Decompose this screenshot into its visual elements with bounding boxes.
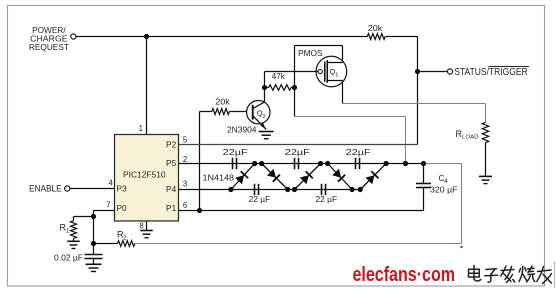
wire R1 to ground <box>73 238 75 241</box>
wire collector <box>264 88 266 102</box>
label POWER/CHARGE REQUEST <box>29 25 69 52</box>
wire pin1 vdd <box>146 37 148 135</box>
node pump top dots <box>252 161 426 166</box>
resistor 20k base <box>212 109 230 115</box>
svg-text:1N4148: 1N4148 <box>203 173 235 182</box>
label 22uF top2 <box>285 148 310 157</box>
svg-text:20k: 20k <box>215 98 231 107</box>
wire gate riser <box>265 72 318 88</box>
node power-pin1 junction <box>144 34 149 39</box>
wire status stub <box>418 71 448 73</box>
label pin P4 <box>166 184 177 194</box>
capacitor 22uF top2 <box>295 158 299 169</box>
label pin P5 <box>166 158 177 168</box>
label 20k pull-up <box>368 24 384 33</box>
resistor R1 <box>71 221 77 239</box>
svg-text:22 µF: 22 µF <box>316 195 338 204</box>
wire cap to ground <box>93 259 95 265</box>
wire P0 drop <box>94 211 115 255</box>
terminal POWER/CHARGE REQUEST <box>71 34 76 39</box>
ground RLOAD <box>479 176 492 183</box>
wire base stub <box>200 111 212 113</box>
diode D2 <box>262 164 288 190</box>
wire rload upper <box>485 104 487 123</box>
svg-text:1: 1 <box>139 124 143 133</box>
wire base-20k vertical <box>199 112 201 211</box>
label pin 2 <box>183 155 187 164</box>
resistor 20k pull-up <box>367 34 385 40</box>
node status junction <box>415 69 420 74</box>
svg-text:20k: 20k <box>368 24 384 33</box>
label STATUS/TRIGGER <box>454 67 529 79</box>
svg-text:7: 7 <box>106 201 110 210</box>
label 0.02uF <box>54 253 83 262</box>
wire source to pump <box>295 117 406 164</box>
svg-text:0.02 µF: 0.02 µF <box>54 253 83 262</box>
label pin P2 <box>166 139 177 149</box>
wire drain to load <box>343 103 486 105</box>
svg-text:22µF: 22µF <box>223 148 248 157</box>
logo strip right edge <box>554 262 556 288</box>
svg-text:REQUEST: REQUEST <box>29 42 69 52</box>
wire source loop <box>295 46 343 117</box>
svg-text:3: 3 <box>183 180 187 189</box>
wire feedback right edge <box>461 164 463 244</box>
svg-text:6: 6 <box>183 201 187 210</box>
logo chinese characters <box>469 266 552 284</box>
terminal STATUS/TRIGGER <box>447 69 452 74</box>
label pin 4 <box>108 179 113 188</box>
label 22uF top3 <box>346 148 371 157</box>
node R2 branch <box>91 241 96 246</box>
svg-text:2: 2 <box>183 155 187 164</box>
svg-text:5: 5 <box>183 136 188 145</box>
label 47k <box>272 72 286 81</box>
wire status vertical <box>417 37 419 145</box>
diode D1 1N4148 <box>231 164 255 190</box>
diode D3 <box>295 164 321 190</box>
label pin 3 <box>183 180 187 189</box>
wire pin8 <box>146 221 148 231</box>
node base-P1 junction <box>197 208 202 213</box>
ground pin8 <box>140 231 153 238</box>
wire P1 rail <box>179 210 424 212</box>
ground 0.02uF <box>86 264 102 271</box>
svg-text:P0: P0 <box>117 203 128 213</box>
capacitor 22uF top3 <box>356 158 360 169</box>
svg-text:22µF: 22µF <box>285 148 310 157</box>
label 22uF bottom2 <box>316 195 338 204</box>
label Q1 <box>330 67 339 78</box>
svg-text:STATUS/TRIGGER: STATUS/TRIGGER <box>454 67 527 78</box>
svg-text:ENABLE: ENABLE <box>29 184 62 195</box>
wire power rail right <box>385 36 417 38</box>
label pin P1 <box>166 203 177 213</box>
svg-text:PMOS: PMOS <box>298 49 323 58</box>
transistor Q1 PMOS <box>316 46 347 104</box>
wire P4 rail <box>179 189 361 191</box>
label pin 7 <box>106 201 110 210</box>
capacitor 22uF bottom2 <box>322 184 326 195</box>
wire R2 to node <box>94 243 118 245</box>
label 20k base <box>215 98 231 107</box>
ground R1 <box>67 241 80 248</box>
ground Q2 emitter <box>259 132 274 139</box>
terminal ENABLE <box>65 186 70 191</box>
svg-text:P5: P5 <box>166 158 177 168</box>
capacitor 22uF top1 <box>233 158 237 169</box>
svg-text:P2: P2 <box>166 139 177 149</box>
wire enable <box>70 188 115 190</box>
svg-text:LOAD: LOAD <box>462 134 479 140</box>
label RLOAD <box>456 129 479 141</box>
node R1 branch <box>91 214 96 219</box>
transistor Q2 2N3904 <box>247 101 270 130</box>
diode D4 <box>328 164 353 190</box>
wire feedback bottom <box>135 243 462 245</box>
resistor R2 <box>118 241 135 247</box>
wire rload lower <box>485 143 487 177</box>
wire P5 rail gray seg <box>424 163 462 165</box>
label PIC12F510 <box>123 170 166 180</box>
wire P2 rail <box>179 144 418 146</box>
label pin 6 <box>183 201 187 210</box>
label C4 <box>430 174 458 195</box>
capacitor 22uF bottom1 <box>255 184 259 195</box>
svg-text:22 µF: 22 µF <box>249 195 271 204</box>
wire P5 rail <box>179 163 424 165</box>
wire R1 branch <box>74 217 94 221</box>
label pin P3 <box>117 184 128 194</box>
resistor 47k <box>265 85 295 91</box>
capacitor 0.02uF <box>85 255 103 259</box>
svg-text:1: 1 <box>335 72 338 78</box>
svg-text:P1: P1 <box>166 203 177 213</box>
logo red dot <box>460 246 462 248</box>
svg-text:22µF: 22µF <box>346 148 371 157</box>
capacitor C4 <box>416 164 431 211</box>
label 1N4148 <box>203 173 235 182</box>
svg-text:2N3904: 2N3904 <box>227 126 257 135</box>
svg-text:PIC12F510: PIC12F510 <box>123 170 166 180</box>
label 22uF top1 <box>223 148 248 157</box>
label ENABLE <box>29 184 62 195</box>
svg-text:47k: 47k <box>272 72 286 81</box>
label 22uF bottom1 <box>249 195 271 204</box>
wire power rail <box>76 36 367 38</box>
label pin P0 <box>117 203 128 213</box>
label pin 8 <box>139 222 143 231</box>
svg-text:P3: P3 <box>117 184 128 194</box>
label R1 <box>60 223 70 235</box>
svg-text:320 µF: 320 µF <box>430 186 458 195</box>
label pin 1 <box>139 124 143 133</box>
label Q2 <box>257 108 266 119</box>
diode D5 <box>360 164 386 190</box>
logo elecfans.com <box>353 264 456 286</box>
node source-47k junction <box>292 85 297 90</box>
label R2 <box>117 230 127 242</box>
node gate-collector junction <box>262 85 267 90</box>
label PMOS <box>298 49 323 58</box>
label 2N3904 <box>227 126 257 135</box>
wire base to Q2 <box>229 111 252 113</box>
svg-text:P4: P4 <box>166 184 177 194</box>
IC U1 PIC12F510 body <box>115 135 179 222</box>
resistor RLOAD <box>482 122 488 142</box>
svg-text:elecfans·com: elecfans·com <box>353 264 456 286</box>
svg-text:2: 2 <box>263 114 266 120</box>
svg-text:4: 4 <box>108 179 113 188</box>
label pin 5 <box>183 136 188 145</box>
node pump bottom dots <box>228 187 363 192</box>
svg-text:8: 8 <box>139 222 143 231</box>
